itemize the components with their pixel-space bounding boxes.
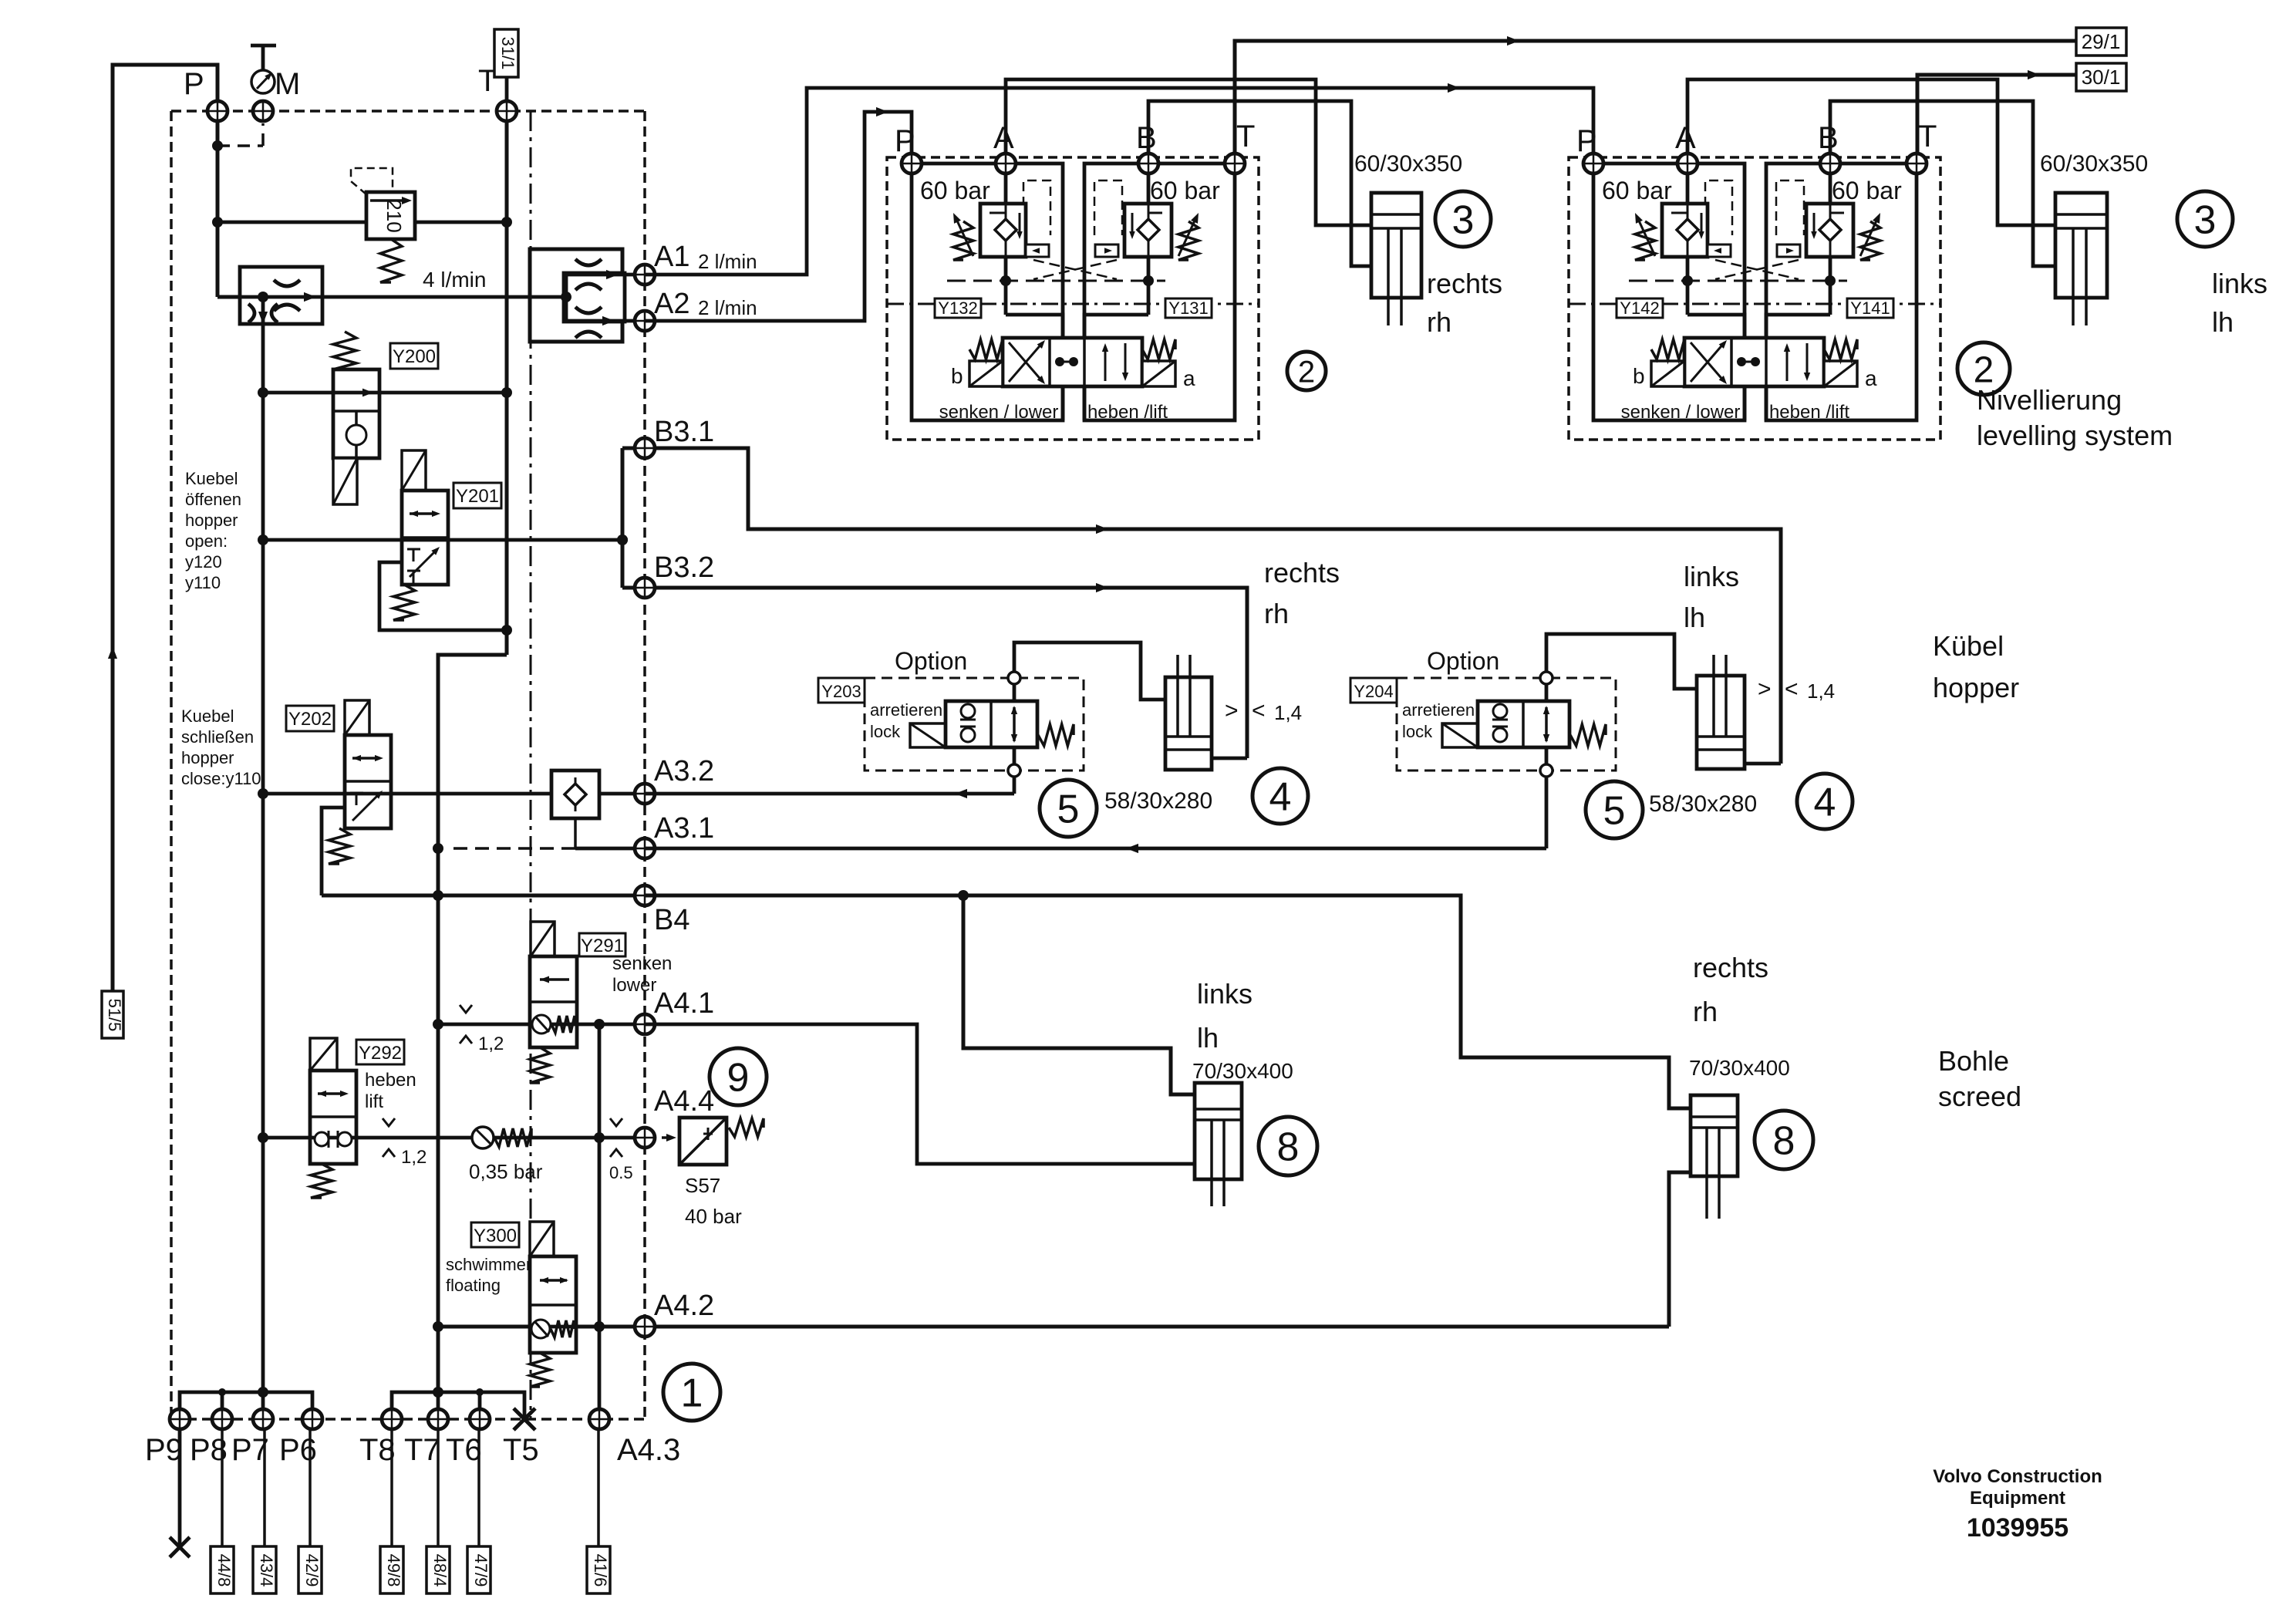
solenoid a (right unit): [1824, 361, 1857, 386]
wire Y202 to B4: [322, 808, 345, 895]
svg-text:screed: screed: [1938, 1081, 2021, 1112]
svg-text:Option: Option: [895, 647, 967, 675]
valve Y291 label: [579, 933, 625, 956]
junction comb P7: [258, 1387, 268, 1398]
wire through lock valve (Y204): [1545, 683, 1549, 701]
wire A1 to right-unit P: [645, 88, 1593, 275]
callout 2 (right unit): [1957, 342, 2010, 395]
wire M-rail branch down: [261, 297, 265, 1392]
check cartridge A (right unit): [1662, 204, 1708, 257]
svg-text:58/30x280: 58/30x280: [1649, 791, 1757, 817]
valve Y202: [345, 735, 391, 828]
svg-text:lh: lh: [1197, 1022, 1219, 1054]
junction M-Y292: [258, 1132, 268, 1143]
svg-text:<: <: [1252, 698, 1266, 723]
callout 9: [710, 1048, 767, 1105]
svg-text:lock: lock: [1402, 722, 1433, 741]
junction comb T7: [433, 1387, 443, 1398]
svg-text:links: links: [1197, 978, 1253, 1010]
sheet ref 44/8: [221, 1428, 224, 1546]
svg-text:y120: y120: [185, 552, 222, 572]
solenoid b (right unit): [1651, 361, 1684, 386]
svg-text:30/1: 30/1: [2082, 66, 2121, 89]
port P: [207, 101, 228, 121]
svg-text:links: links: [2212, 268, 2267, 299]
sheet ref 51/5: [102, 991, 123, 1038]
svg-text:T6: T6: [446, 1433, 482, 1467]
svg-text:4: 4: [1814, 781, 1836, 825]
svg-text:arretieren: arretieren: [1402, 700, 1475, 720]
port B levelling (left unit): [1138, 153, 1158, 174]
spring cartridge B (left unit): [1178, 221, 1199, 260]
junction comb T6: [476, 1388, 484, 1396]
svg-text:2 l/min: 2 l/min: [698, 296, 757, 319]
wire Y201 line: [263, 538, 622, 542]
lock valve spring (Y203): [1038, 724, 1074, 746]
symbol gauge point 0.5: [610, 1118, 622, 1126]
callout 1: [663, 1364, 720, 1421]
valve Y300 label: [471, 1222, 519, 1247]
svg-text:Volvo Construction: Volvo Construction: [1933, 1466, 2102, 1487]
valve Y202 solenoid: [345, 700, 369, 735]
svg-text:51/5: 51/5: [105, 999, 124, 1032]
port T: [497, 101, 517, 121]
symbol gauge point 1,2 (A4.1): [460, 1005, 472, 1013]
junction T-A41: [433, 1019, 443, 1030]
svg-text:60/30x350: 60/30x350: [2040, 151, 2148, 177]
valve Y292 solenoid: [310, 1038, 337, 1071]
check valve 0,35 bar: [472, 1127, 494, 1148]
valve Y292 label: [356, 1040, 404, 1064]
junction B pilot (right unit): [1825, 275, 1836, 286]
valve Y300 solenoid: [530, 1222, 554, 1256]
svg-text:Y300: Y300: [474, 1226, 517, 1246]
svg-text:hopper: hopper: [1933, 672, 2019, 703]
valve Y201 label: [453, 483, 501, 508]
sheet ref 29/1: [2076, 28, 2126, 56]
svg-text:lift: lift: [365, 1091, 383, 1112]
callout 4 hopper lh: [1797, 774, 1853, 829]
directional valve body (left unit): [1003, 338, 1142, 386]
valve center (left unit): [1055, 357, 1064, 366]
symbol gauge point 1,2 (A4.4): [383, 1118, 395, 1126]
svg-text:T7: T7: [404, 1433, 440, 1467]
valve Y300: [530, 1256, 576, 1353]
svg-text:a: a: [1183, 366, 1195, 390]
svg-text:A3.2: A3.2: [654, 755, 714, 787]
svg-text:Equipment: Equipment: [1970, 1488, 2065, 1509]
junction divider2 in: [561, 292, 571, 302]
callout 2 (left unit): [1287, 352, 1326, 390]
port P levelling (right unit): [1583, 153, 1603, 174]
option block border (dashed) (Y203): [865, 678, 1084, 771]
lock valve solenoid (Y203): [910, 723, 946, 747]
svg-text:P9: P9: [145, 1433, 183, 1467]
port A1: [635, 265, 655, 285]
wire Y201 to T rail: [379, 562, 507, 630]
arrow cartridge A (right unit): [1638, 219, 1655, 256]
svg-text:A4.2: A4.2: [654, 1290, 714, 1322]
valve center (right unit): [1737, 357, 1746, 366]
port T5 plugged: [514, 1408, 535, 1430]
port A4.4: [635, 1128, 655, 1148]
svg-text:44/8: 44/8: [214, 1554, 234, 1587]
svg-text:rechts: rechts: [1264, 557, 1340, 588]
wire relief line: [217, 221, 366, 224]
junction T-Y201: [501, 625, 512, 636]
wire 4 l/min line: [263, 295, 530, 299]
callout 5 hopper rh: [1040, 780, 1097, 837]
wire A4.3 rail: [598, 1024, 602, 1419]
svg-text:Nivellierung: Nivellierung: [1977, 384, 2122, 416]
wire P supply from sheet 51/5: [113, 65, 217, 991]
junction B4 branch: [958, 890, 969, 901]
svg-text:rh: rh: [1693, 996, 1718, 1027]
lock valve body (Y204): [1478, 701, 1569, 747]
wire B3 branch: [621, 448, 625, 588]
wire B to cylinder (right): [1830, 101, 2055, 266]
svg-text:lh: lh: [2212, 306, 2234, 338]
svg-text:3: 3: [2194, 198, 2217, 243]
wire P9 drain: [178, 1419, 182, 1545]
svg-text:60 bar: 60 bar: [1150, 177, 1220, 204]
junction B3: [617, 534, 628, 545]
wire A4.1 to lh screed cylinder: [645, 1024, 1195, 1164]
valve Y201: [402, 491, 448, 585]
svg-text:Y142: Y142: [1620, 298, 1659, 318]
pilot cross lines (left unit): [1033, 260, 1117, 279]
wire comb P-group: [180, 1392, 312, 1419]
svg-text:Y131: Y131: [1168, 298, 1208, 318]
pilot line P to gauge (dashed): [217, 144, 263, 147]
port T levelling (left unit): [1225, 153, 1245, 174]
port T6: [470, 1409, 490, 1429]
wire B3.2 line: [622, 588, 1247, 758]
pilot piston B (right unit): [1777, 244, 1800, 257]
valve Y200 spring: [333, 332, 356, 369]
wire B3.1 line: [622, 448, 1781, 764]
sheet ref 42/9: [308, 1428, 312, 1546]
svg-text:hopper: hopper: [185, 511, 238, 530]
lock valve spring (Y204): [1570, 724, 1606, 746]
pilot line check valve: [574, 818, 577, 848]
svg-text:rechts: rechts: [1427, 268, 1502, 299]
svg-text:>: >: [1758, 676, 1772, 702]
sheet ref 47/9: [477, 1428, 480, 1546]
pressure switch S57: [649, 1136, 670, 1139]
valve Y291 solenoid: [531, 922, 555, 956]
port B4: [635, 885, 655, 905]
check cartridge B (left unit): [1124, 204, 1172, 257]
valve Y291: [530, 956, 577, 1047]
svg-text:senken / lower: senken / lower: [939, 402, 1059, 423]
valve crossed arrows (left unit): [1009, 342, 1043, 382]
wire A3.2 to option: [645, 792, 1014, 796]
junction A43-A41: [594, 1019, 605, 1030]
valve Y292 spring: [311, 1164, 332, 1198]
label Y132 (left unit): [935, 298, 981, 318]
wire B4 line: [322, 894, 645, 898]
svg-text:A4.4: A4.4: [654, 1085, 714, 1118]
svg-text:43/4: 43/4: [257, 1554, 276, 1587]
junction relief-T: [501, 217, 512, 228]
svg-text:b: b: [951, 364, 963, 388]
svg-text:T5: T5: [503, 1433, 539, 1467]
svg-text:open:: open:: [185, 531, 228, 551]
flow divider valve: [240, 267, 322, 324]
svg-text:Y201: Y201: [456, 486, 499, 507]
svg-text:210: 210: [383, 199, 406, 232]
svg-text:8: 8: [1773, 1119, 1795, 1164]
svg-text:1,4: 1,4: [1807, 679, 1835, 703]
svg-text:B: B: [1136, 121, 1157, 155]
spring b (right unit): [1651, 339, 1684, 359]
svg-text:B: B: [1818, 121, 1839, 155]
svg-text:links: links: [1684, 561, 1739, 592]
svg-text:Kuebel: Kuebel: [185, 469, 238, 488]
svg-text:70/30x400: 70/30x400: [1689, 1056, 1790, 1080]
wire B4 to lh screed cylinder: [963, 895, 1195, 1094]
svg-text:1,2: 1,2: [401, 1147, 426, 1168]
port option top (Y204): [1540, 672, 1553, 684]
spring b (left unit): [969, 339, 1003, 359]
port option bottom (Y203): [1008, 764, 1020, 777]
svg-text:4 l/min: 4 l/min: [423, 268, 486, 292]
junction A43-A42: [594, 1321, 605, 1332]
solenoid a (left unit): [1142, 361, 1175, 386]
port P7: [253, 1409, 273, 1429]
svg-text:Bohle: Bohle: [1938, 1045, 2009, 1077]
callout 5 hopper lh: [1586, 781, 1643, 838]
wire A4.2 line: [438, 1325, 1669, 1329]
svg-text:60/30x350: 60/30x350: [1354, 151, 1462, 177]
levelling valve block border (dashed) (left unit): [887, 157, 1259, 440]
label Y131 (left unit): [1165, 298, 1212, 318]
svg-text:B3.1: B3.1: [654, 416, 714, 448]
svg-text:P: P: [895, 124, 915, 158]
check cartridge B (right unit): [1806, 204, 1853, 257]
wire B internal (right unit): [1829, 173, 1832, 204]
block body left (left unit): [912, 164, 1063, 420]
wire P to divider: [217, 295, 263, 299]
svg-text:rh: rh: [1264, 598, 1289, 629]
wire option to cylinder (rh hopper): [1014, 642, 1165, 700]
wire comb T-group: [392, 1392, 524, 1419]
junction P-relief: [212, 217, 223, 228]
manifold block border (dashed): [171, 110, 645, 113]
wire valve to tank (right unit): [1743, 386, 1747, 420]
wire A internal (right unit): [1686, 173, 1690, 204]
lock valve solenoid (Y204): [1442, 723, 1478, 747]
svg-text:T: T: [1918, 120, 1937, 153]
manifold internal chain line: [530, 111, 532, 1419]
pressure gauge M: [251, 44, 276, 48]
svg-text:1,4: 1,4: [1274, 701, 1302, 724]
port B3.2: [635, 578, 655, 598]
junction M-Y202: [258, 788, 268, 799]
port A levelling (right unit): [1677, 153, 1698, 174]
valve crossed arrows (right unit): [1691, 342, 1725, 382]
svg-text:3: 3: [1452, 198, 1475, 243]
port T levelling (right unit): [1907, 153, 1927, 174]
valve Y201 spring: [393, 585, 415, 620]
port A3.2: [635, 784, 655, 804]
sheet ref 48/4: [437, 1428, 440, 1546]
port A4.3: [589, 1409, 609, 1429]
flow divider valve 2: [530, 249, 622, 342]
svg-text:b: b: [1633, 364, 1645, 388]
junction A pilot (right unit): [1682, 275, 1693, 286]
junction M-Y200: [258, 387, 268, 398]
svg-text:close:y110: close:y110: [181, 769, 261, 788]
junction A43-A44: [594, 1132, 605, 1143]
svg-text:Kübel: Kübel: [1933, 630, 2004, 662]
wire through divider: [231, 295, 263, 299]
svg-text:2: 2: [1298, 355, 1315, 389]
pilot staple A (left unit): [1023, 180, 1050, 235]
arrow cartridge B (left unit): [1178, 219, 1195, 256]
sheet ref 31/1: [494, 29, 518, 77]
valve Y200 label: [390, 343, 438, 369]
svg-text:B3.2: B3.2: [654, 551, 714, 584]
block body right (left unit): [1084, 164, 1235, 420]
pilot staple B (left unit): [1094, 180, 1122, 235]
spring cartridge A (right unit): [1635, 221, 1655, 260]
junction A pilot (left unit): [1000, 275, 1011, 286]
valve Y202 spring: [329, 828, 350, 864]
wire valve to tank (left unit): [1061, 386, 1065, 420]
svg-text:heben: heben: [365, 1070, 416, 1091]
svg-text:<: <: [1785, 676, 1799, 702]
pilot dash line (right unit): [1629, 280, 1847, 282]
arrow up on supply line: [108, 646, 117, 659]
svg-text:T: T: [1236, 120, 1255, 153]
svg-text:arretieren: arretieren: [870, 700, 942, 720]
arrow cartridge A (left unit): [956, 219, 973, 256]
lock valve body (Y203): [946, 701, 1037, 747]
wire A to cylinder (left): [1006, 79, 1371, 225]
wire into divider 2: [530, 295, 566, 299]
valve Y300 spring: [530, 1353, 550, 1387]
svg-text:hopper: hopper: [181, 748, 234, 767]
wire A1 out: [566, 273, 645, 277]
check valve A3.2: [551, 771, 599, 818]
lock valve arrow (Y203): [1013, 707, 1016, 741]
svg-text:schließen: schließen: [181, 727, 254, 747]
port A4.2: [635, 1317, 655, 1337]
port P levelling (left unit): [902, 153, 922, 174]
svg-text:8: 8: [1277, 1125, 1300, 1170]
wire A2 out: [566, 319, 645, 323]
svg-text:rh: rh: [1427, 306, 1451, 338]
cylinder 60/30x350 right-hand: [1371, 193, 1421, 298]
wire T rail: [505, 121, 509, 222]
pilot piston B (left unit): [1095, 244, 1118, 257]
junction B pilot (left unit): [1143, 275, 1154, 286]
wire option to cylinder (lh hopper): [1546, 634, 1697, 689]
svg-text:29/1: 29/1: [2082, 30, 2121, 53]
wire A to cylinder (right): [1687, 79, 2055, 225]
port M: [253, 101, 273, 121]
callout 3 rh: [1435, 191, 1491, 247]
svg-text:Y200: Y200: [393, 346, 436, 367]
wire B internal (left unit): [1147, 173, 1151, 204]
junction T-Y200: [501, 387, 512, 398]
wire right T to 30/1: [1917, 75, 2076, 158]
valve Y200 solenoid: [333, 458, 357, 504]
svg-text:41/6: 41/6: [591, 1554, 610, 1587]
svg-text:Y132: Y132: [938, 298, 977, 318]
svg-text:a: a: [1865, 366, 1877, 390]
label Y142 (right unit): [1617, 298, 1663, 318]
wire B to cylinder (left): [1148, 101, 1371, 266]
junction T-B4: [433, 890, 443, 901]
wire A3.1 to option: [645, 847, 1546, 851]
valve Y201 solenoid: [402, 450, 426, 491]
check cartridge A (left unit): [980, 204, 1026, 257]
svg-text:Y141: Y141: [1850, 298, 1890, 318]
svg-text:1: 1: [681, 1371, 703, 1416]
spring cartridge B (right unit): [1860, 221, 1880, 260]
junction T-A42: [433, 1321, 443, 1332]
svg-text:Kuebel: Kuebel: [181, 706, 234, 726]
valve parallel arrows (left unit): [1104, 347, 1107, 381]
cylinder 60/30x350 left-hand: [2055, 193, 2107, 298]
svg-text:47/9: 47/9: [471, 1554, 491, 1587]
wire left T to 29/1: [1235, 41, 2076, 158]
wire A4.4 line: [263, 1136, 649, 1140]
svg-text:5: 5: [1057, 787, 1080, 832]
svg-text:31/1: 31/1: [498, 37, 518, 70]
svg-text:1039955: 1039955: [1967, 1513, 2068, 1543]
svg-text:M: M: [275, 67, 300, 101]
svg-text:Option: Option: [1427, 647, 1499, 675]
svg-text:4: 4: [1269, 775, 1292, 820]
sheet ref 49/8: [390, 1428, 393, 1546]
pilot staple B (right unit): [1776, 180, 1804, 235]
port option bottom (Y204): [1540, 764, 1553, 777]
svg-text:49/8: 49/8: [384, 1554, 403, 1587]
port A levelling (left unit): [996, 153, 1016, 174]
svg-text:floating: floating: [446, 1276, 501, 1295]
cylinder 58/30x280 right-hand: [1165, 677, 1212, 770]
sheet ref 43/4: [263, 1428, 266, 1546]
valve parallel arrows (right unit): [1786, 347, 1789, 381]
svg-text:rechts: rechts: [1693, 952, 1768, 983]
pilot staple A (right unit): [1705, 180, 1732, 235]
port B3.1: [635, 438, 655, 458]
spring a (right unit): [1824, 339, 1857, 359]
svg-text:S57: S57: [685, 1174, 720, 1197]
lock valve arrow (Y204): [1545, 707, 1548, 741]
port T7: [428, 1409, 448, 1429]
block body left (right unit): [1593, 164, 1745, 420]
svg-text:A: A: [1675, 121, 1696, 155]
svg-text:lh: lh: [1684, 602, 1705, 633]
svg-text:Y204: Y204: [1354, 682, 1393, 701]
svg-text:58/30x280: 58/30x280: [1104, 788, 1212, 814]
callout 4 hopper rh: [1253, 768, 1308, 824]
svg-text:heben /lift: heben /lift: [1087, 402, 1168, 423]
callout 8 screed rh: [1755, 1111, 1813, 1169]
sheet ref 30/1: [2076, 63, 2126, 91]
svg-text:42/9: 42/9: [302, 1554, 322, 1587]
svg-text:Y202: Y202: [288, 709, 332, 730]
svg-text:A4.1: A4.1: [654, 987, 714, 1020]
port P8: [212, 1409, 232, 1429]
wire through lock valve (Y203): [1013, 683, 1017, 701]
port B levelling (right unit): [1820, 153, 1840, 174]
